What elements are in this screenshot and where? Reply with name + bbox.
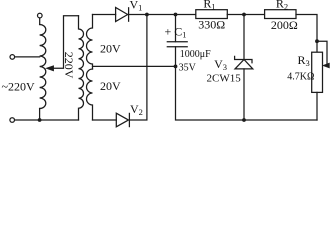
resistor R2	[265, 10, 296, 19]
wire input to winding tap	[15, 56, 40, 58]
wire autotransformer bottom stem	[39, 109, 41, 121]
svg-text:R2: R2	[276, 0, 288, 11]
wire secondary bottom to diode V2	[93, 119, 117, 121]
node junction center tap on C1 lead	[174, 65, 178, 69]
wire center tap to negative rail	[93, 65, 176, 67]
svg-text:220V: 220V	[62, 52, 76, 79]
svg-text:1000μF: 1000μF	[180, 49, 211, 60]
wire bottom rail primary side	[15, 119, 79, 121]
svg-text:~220V: ~220V	[2, 80, 35, 94]
wiper arrow of autotransformer	[53, 16, 79, 69]
autotransformer winding T	[40, 25, 46, 109]
terminal circle left input	[10, 55, 15, 60]
node junction R3 wiper tie	[315, 39, 319, 43]
node junction V2 branch on top rail	[145, 13, 149, 17]
wire V2 cathode rising to plus node	[129, 15, 147, 121]
zener diode V3	[243, 15, 245, 60]
resistor R1	[196, 10, 228, 19]
wire top terminal stem	[39, 18, 41, 25]
svg-text:R1: R1	[203, 0, 215, 11]
node junction V3 top	[242, 13, 246, 17]
wire V1 cathode to R1	[129, 14, 196, 16]
wire secondary top to diode V1	[93, 14, 116, 16]
svg-text:35V: 35V	[179, 63, 197, 74]
wiper arrow of R3	[323, 63, 330, 68]
svg-text:4.7KΩ: 4.7KΩ	[287, 71, 314, 82]
node junction C1 top	[174, 13, 178, 17]
svg-text:20V: 20V	[100, 41, 121, 55]
capacitor C1	[175, 15, 177, 42]
svg-text:V1: V1	[130, 0, 143, 13]
terminal circle top (autotransformer top)	[38, 13, 43, 18]
svg-text:2CW15: 2CW15	[207, 73, 242, 85]
diode V1	[116, 8, 128, 22]
node junction autotransformer bottom	[38, 118, 42, 122]
terminal circle bottom input	[10, 118, 15, 123]
transformer secondary winding upper 20V	[87, 15, 93, 70]
wire R2 to R3 top	[296, 15, 317, 53]
svg-text:200Ω: 200Ω	[271, 18, 298, 32]
wire R1 to R2	[227, 14, 264, 16]
transformer primary winding	[79, 16, 84, 120]
svg-text:330Ω: 330Ω	[198, 18, 225, 32]
svg-text:20V: 20V	[100, 79, 121, 93]
transformer secondary winding lower 20V	[87, 69, 93, 120]
wire R3 bottom to rail	[316, 92, 318, 120]
wire R3 wiper connection	[317, 41, 327, 65]
potentiometer R3 body	[312, 52, 323, 92]
diode V2	[116, 113, 128, 127]
node junction V3 bottom	[242, 118, 246, 122]
